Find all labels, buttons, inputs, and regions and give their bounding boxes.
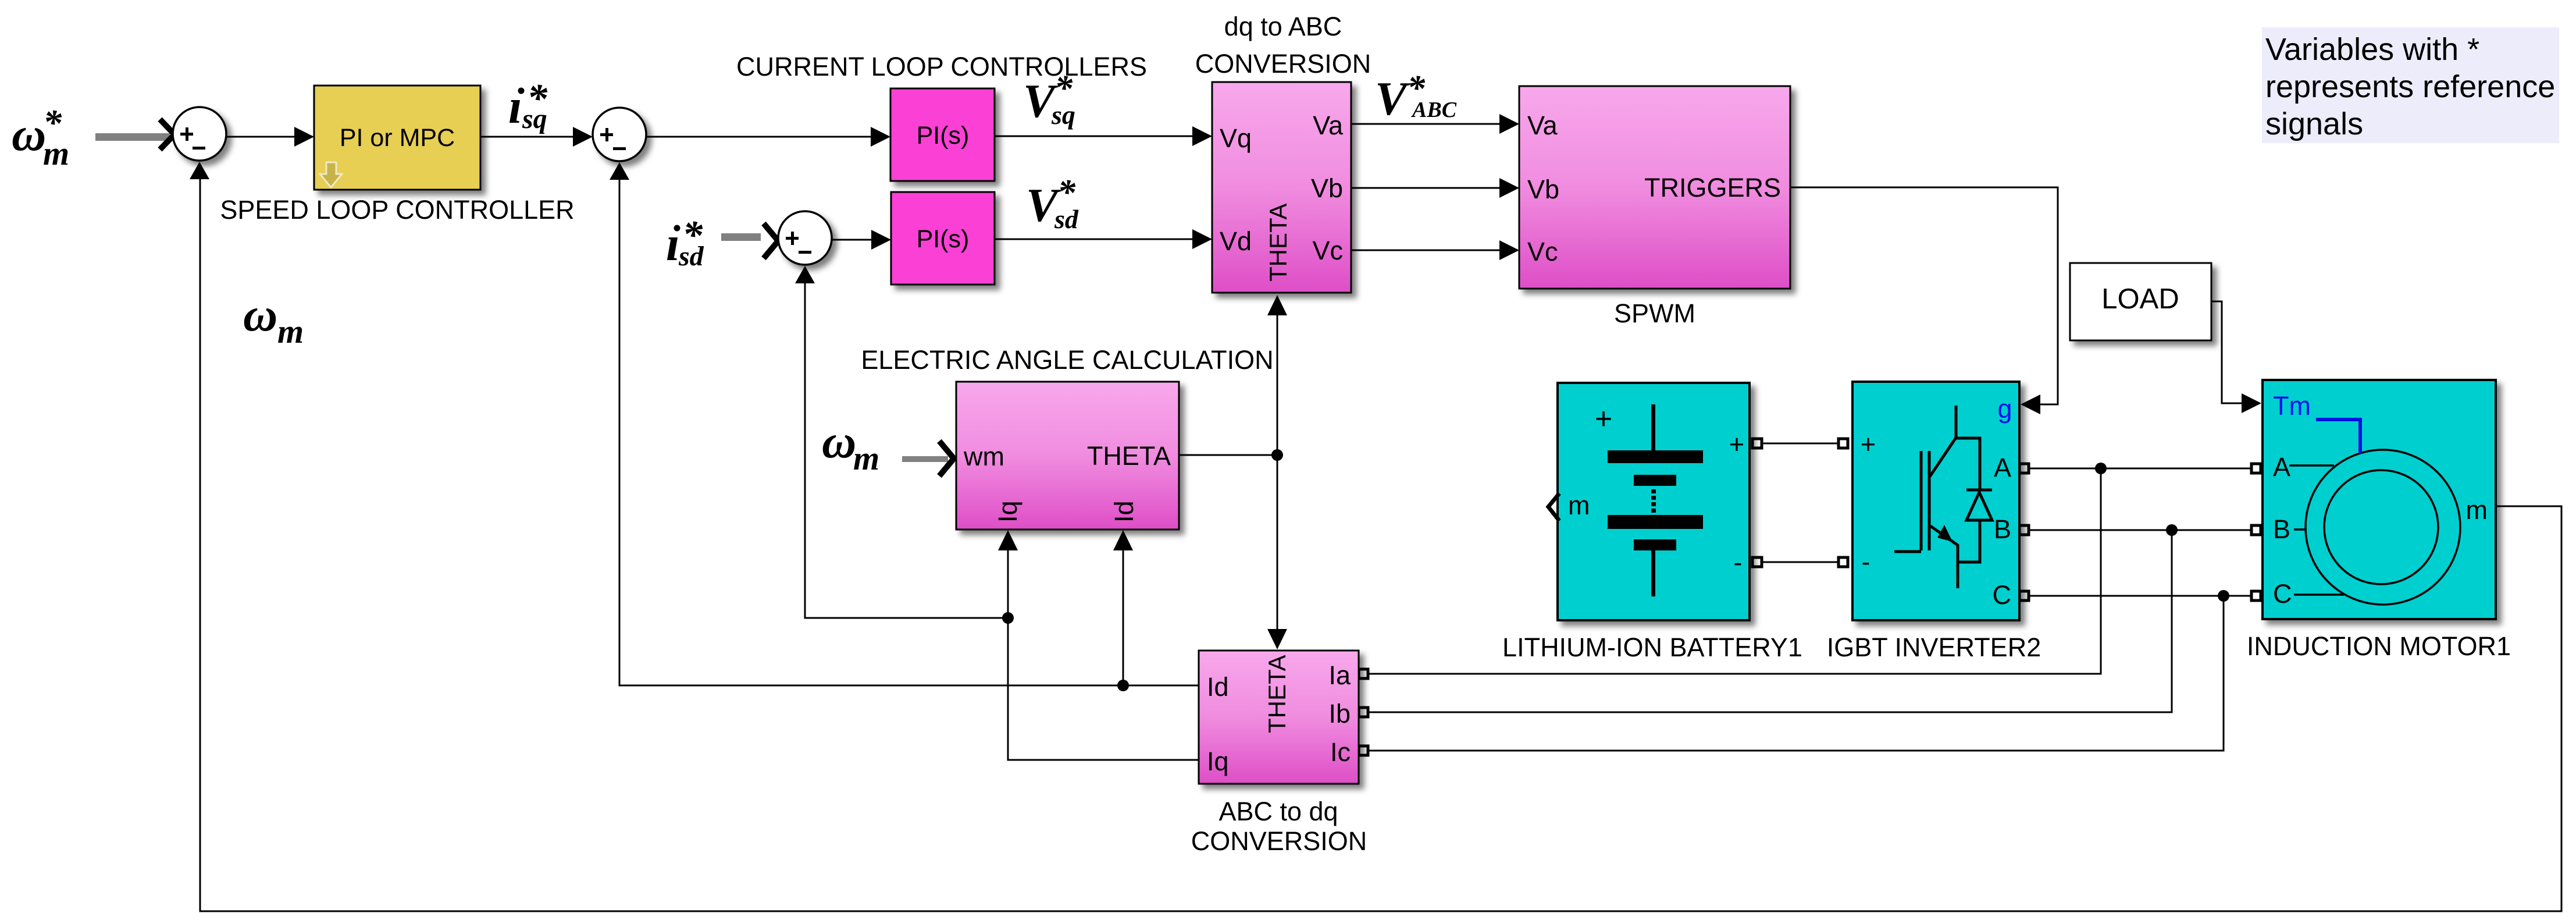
label: V*sd (math) <box>1026 173 1079 234</box>
svg-text:THETA: THETA <box>1263 655 1291 733</box>
badge: look-under-mask arrow on PI or MPC <box>320 162 342 187</box>
svg-text:Va: Va <box>1313 111 1344 140</box>
port square battery + <box>1752 439 1762 448</box>
svg-text:SPWM: SPWM <box>1614 298 1695 328</box>
svg-text:PI(s): PI(s) <box>917 225 970 253</box>
block: ABC to dq conversion (gradient) <box>1199 651 1359 784</box>
svg-text:V: V <box>1375 72 1410 125</box>
svg-text:+: + <box>1861 429 1876 459</box>
arrowhead into DQ2ABC Vd <box>1192 229 1212 249</box>
arrowhead into SPWM Vb <box>1499 178 1519 198</box>
svg-text:ABC: ABC <box>1411 98 1457 122</box>
wire: PI(s) upper output V*sq to DQ2ABC Vq <box>995 136 1196 137</box>
block: INDUCTION MOTOR1 (cyan) <box>2263 380 2496 619</box>
svg-text:ω: ω <box>243 288 277 341</box>
arrowhead into PI(s) lower <box>871 230 891 250</box>
label: i*sq (math) <box>508 76 548 134</box>
svg-text:m: m <box>2466 495 2488 525</box>
arrowhead into motor Tm port <box>2242 393 2261 413</box>
block: LOAD (white) <box>2070 263 2211 340</box>
wire: sum S3 to PI(s) lower <box>831 239 875 241</box>
wire: branch up to ELECTRIC ANGLE Iq bottom port <box>1007 547 1009 618</box>
wire: inverter C to motor C <box>2029 595 2251 597</box>
label: wm feedback (math, below speed controller) <box>243 288 304 350</box>
svg-text:C: C <box>1993 580 2012 610</box>
input signal w*m: thick gray stub with chevron into sum S1 <box>95 119 174 150</box>
svg-text:IGBT INVERTER2: IGBT INVERTER2 <box>1827 632 2041 662</box>
svg-text:ı: ı <box>508 79 522 134</box>
sum junction S1 (speed error) <box>173 107 226 161</box>
svg-text:SPEED LOOP CONTROLLER: SPEED LOOP CONTROLLER <box>220 195 574 225</box>
port square ABC2DQ Ib <box>1359 708 1368 717</box>
icon: motor stator and rotor circles <box>2289 450 2460 605</box>
svg-text:-: - <box>1862 547 1870 577</box>
junction node on phase A wire <box>2095 463 2107 474</box>
arrowhead into SPWM Va <box>1499 114 1519 134</box>
svg-text:CONVERSION: CONVERSION <box>1191 826 1367 856</box>
annotation: Variables with * note <box>2262 27 2559 143</box>
arrowhead into ABC2DQ THETA top port <box>1267 629 1287 649</box>
svg-text:sd: sd <box>678 241 704 272</box>
arrowhead into sum S3 bottom <box>795 266 815 283</box>
port square inverter C <box>2019 591 2029 600</box>
svg-text:Vq: Vq <box>1220 123 1252 153</box>
wire: sum S2 to PI(s) upper <box>646 136 874 138</box>
block: PI(s) upper current controller <box>890 88 995 181</box>
junction node on Id feedback wire <box>1117 680 1129 691</box>
arrowhead into PI or MPC <box>294 127 314 147</box>
wire: battery - to inverter - <box>1754 561 1843 563</box>
wire: LOAD to INDUCTION MOTOR1 Tm <box>2211 301 2244 403</box>
svg-text:Vb: Vb <box>1311 173 1343 203</box>
arrowhead into PI(s) upper <box>871 127 890 147</box>
port square motor A <box>2251 464 2261 473</box>
wire: PI or MPC to sum S2 (i*sq reference) <box>480 136 577 138</box>
wire: speed feedback wm from motor m port to sum S1 <box>200 177 2561 911</box>
block: dq to ABC conversion (gradient) <box>1212 82 1351 293</box>
wire: Ib measurement from phase B to ABC2DQ <box>1368 530 2172 712</box>
svg-text:Vb: Vb <box>1527 175 1559 204</box>
svg-text:THETA: THETA <box>1264 203 1292 282</box>
svg-text:ω: ω <box>822 415 856 468</box>
block: SPWM (gradient) <box>1519 86 1790 289</box>
input signal i*sd: thick gray stub with chevron into sum S3 <box>721 223 778 258</box>
svg-text:wm: wm <box>963 442 1004 471</box>
port square ABC2DQ Ic <box>1359 746 1368 755</box>
svg-text:Tm: Tm <box>2273 391 2311 421</box>
svg-text:+: + <box>1729 429 1744 459</box>
sum junction S2 (iq current error) <box>593 108 646 161</box>
arrowhead into SPWM Vc <box>1499 240 1519 260</box>
svg-text:B: B <box>1994 514 2011 544</box>
svg-text:LOAD: LOAD <box>2101 283 2179 315</box>
arrowhead into DQ2ABC Vq <box>1192 126 1212 146</box>
svg-text:Variables with *: Variables with * <box>2265 32 2479 67</box>
svg-text:Ic: Ic <box>1330 737 1351 767</box>
port square inverter - <box>1839 557 1848 567</box>
svg-text:-: - <box>1734 548 1743 577</box>
port: battery m physical chevron <box>1548 493 1559 521</box>
arrowhead into IGBT g port (pointing left) <box>2021 395 2040 414</box>
label: dq to ABC CONVERSION <box>1195 12 1371 79</box>
port square ABC2DQ Ia <box>1359 669 1368 678</box>
junction node on Iq feedback wire <box>1002 612 1014 624</box>
wire: inverter B to motor B <box>2029 529 2251 531</box>
svg-text:LITHIUM-ION BATTERY1: LITHIUM-ION BATTERY1 <box>1502 632 1802 662</box>
wire: Va from DQ2ABC to SPWM <box>1351 123 1503 125</box>
svg-text:Vc: Vc <box>1527 237 1558 266</box>
svg-text:Iq: Iq <box>993 500 1022 523</box>
svg-text:Ib: Ib <box>1328 699 1351 728</box>
wire: Vc from DQ2ABC to SPWM <box>1351 250 1503 251</box>
arrowhead into ELECTRIC ANGLE Id port <box>1113 530 1133 550</box>
wire: branch up to ELECTRIC ANGLE Id bottom port <box>1123 547 1124 685</box>
block: PI or MPC speed loop controller (yellow) <box>314 86 480 190</box>
label: wm into electric angle block (math) <box>822 415 879 477</box>
arrowhead into sum S2 left <box>573 127 593 147</box>
wire: TRIGGERS from SPWM to IGBT INVERTER2 g port <box>1790 187 2058 404</box>
svg-text:Vd: Vd <box>1220 226 1252 256</box>
arrowhead into ELECTRIC ANGLE Iq port <box>998 530 1018 550</box>
wire: Ic measurement from phase C to ABC2DQ <box>1368 596 2224 751</box>
icon: battery cell stack <box>1608 404 1703 596</box>
svg-text:Ia: Ia <box>1328 660 1351 690</box>
svg-text:A: A <box>1994 453 2011 482</box>
svg-text:m: m <box>1568 491 1590 520</box>
arrowhead into sum S1 bottom <box>190 162 209 179</box>
wire: Iq feedback from ABC2DQ Iq port to sum S3 <box>805 281 1199 760</box>
port square motor B <box>2251 525 2261 535</box>
svg-text:ELECTRIC ANGLE CALCULATION: ELECTRIC ANGLE CALCULATION <box>861 345 1273 375</box>
svg-text:CURRENT LOOP CONTROLLERS: CURRENT LOOP CONTROLLERS <box>736 52 1147 81</box>
svg-text:Id: Id <box>1207 672 1229 702</box>
svg-text:CONVERSION: CONVERSION <box>1195 49 1371 79</box>
wire: battery + to inverter + <box>1754 443 1843 445</box>
svg-text:INDUCTION MOTOR1: INDUCTION MOTOR1 <box>2247 631 2511 661</box>
wire: sum S1 to PI or MPC <box>226 136 298 138</box>
svg-text:sq: sq <box>1051 100 1075 130</box>
junction node on THETA wire <box>1271 449 1283 461</box>
wire: Vb from DQ2ABC to SPWM <box>1351 187 1503 189</box>
svg-text:+: + <box>1595 402 1612 436</box>
icon: IGBT with antiparallel diode <box>1894 406 1992 588</box>
port square motor C <box>2251 591 2261 600</box>
icon: motor Tm blue elbow <box>2316 420 2360 453</box>
svg-text:represents reference: represents reference <box>2265 69 2555 104</box>
svg-text:ω: ω <box>12 108 46 161</box>
junction node on phase B wire <box>2166 524 2178 536</box>
svg-text:PI(s): PI(s) <box>917 122 970 150</box>
wire: THETA from ELECTRIC ANGLE output to both conversion blocks <box>1179 314 1277 631</box>
block: IGBT INVERTER2 (cyan) <box>1852 382 2019 620</box>
svg-text:sq: sq <box>522 104 547 134</box>
svg-text:ı: ı <box>666 216 680 271</box>
arrowhead into DQ2ABC THETA bottom port <box>1267 295 1287 315</box>
block: PI(s) lower current controller <box>891 192 995 285</box>
svg-text:Id: Id <box>1109 500 1139 523</box>
wire: Ia measurement from phase A to ABC2DQ <box>1368 468 2101 674</box>
svg-text:PI or MPC: PI or MPC <box>340 124 455 152</box>
arrowhead into sum S2 bottom <box>610 162 629 180</box>
block: ELECTRIC ANGLE CALCULATION (gradient) <box>956 382 1179 529</box>
label: w*m reference input (math) <box>12 102 69 172</box>
port square inverter B <box>2019 525 2029 535</box>
svg-text:m: m <box>853 439 879 477</box>
block: LITHIUM-ION BATTERY1 (cyan) <box>1558 383 1750 620</box>
svg-text:A: A <box>2273 452 2290 482</box>
wire: PI(s) lower output V*sd to DQ2ABC Vd <box>995 239 1196 240</box>
svg-text:Vc: Vc <box>1312 236 1343 265</box>
svg-text:TRIGGERS: TRIGGERS <box>1644 173 1781 202</box>
label: ABC to dq CONVERSION <box>1191 797 1367 856</box>
input signal wm: thick gray stub with chevron into ELECTRIC ANGLE wm <box>902 441 954 476</box>
svg-text:sd: sd <box>1054 204 1079 234</box>
svg-text:m: m <box>43 134 69 172</box>
svg-text:ABC to dq: ABC to dq <box>1218 797 1338 826</box>
svg-text:THETA: THETA <box>1087 441 1171 471</box>
port square inverter + <box>1839 439 1848 448</box>
svg-text:m: m <box>277 312 304 350</box>
svg-text:signals: signals <box>2265 106 2363 141</box>
label: i*sd (math) <box>666 213 704 272</box>
port square inverter A <box>2019 464 2029 473</box>
arrowhead on IGBT emitter <box>1937 525 1953 542</box>
port square battery - <box>1752 557 1762 567</box>
svg-text:B: B <box>2273 514 2290 544</box>
label: V*sq (math) <box>1023 69 1075 130</box>
wire: Id feedback from ABC2DQ Id port to sum S2 <box>619 177 1199 685</box>
svg-text:C: C <box>2273 579 2292 609</box>
sum junction S3 (id current error) <box>778 211 832 265</box>
svg-text:g: g <box>1997 394 2012 424</box>
wire: inverter A to motor A <box>2029 468 2251 470</box>
label: V*ABC (math) <box>1375 69 1457 125</box>
junction node on phase C wire <box>2218 590 2229 602</box>
svg-text:Va: Va <box>1527 111 1558 140</box>
svg-text:dq to ABC: dq to ABC <box>1224 12 1342 41</box>
svg-text:Iq: Iq <box>1207 747 1229 776</box>
